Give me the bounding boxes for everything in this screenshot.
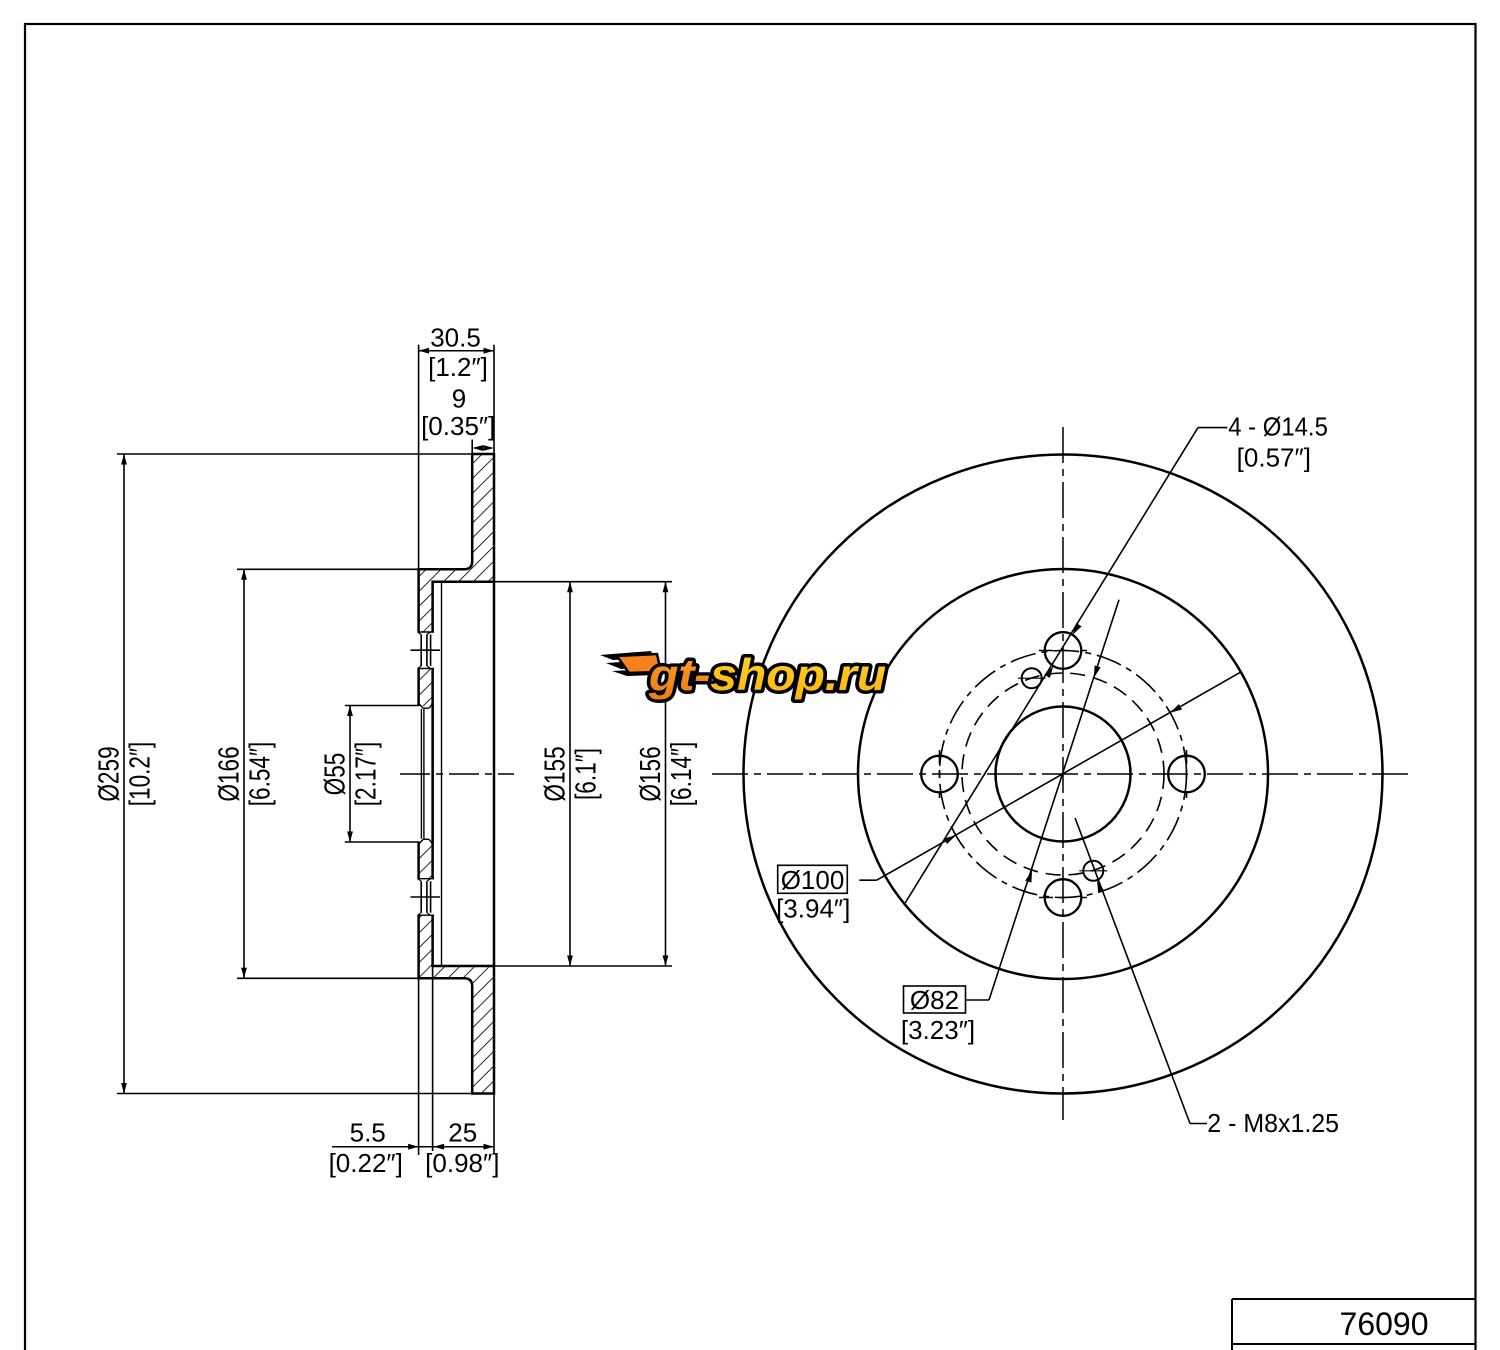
svg-text:[1.2″]: [1.2″] <box>428 352 488 382</box>
bolt circle D100 (dash-dot) <box>940 651 1187 898</box>
svg-text:gt-: gt- <box>648 650 710 700</box>
svg-text:[0.22″]: [0.22″] <box>329 1148 403 1178</box>
leader D82 [3.23"] (boxed) <box>904 986 966 1013</box>
svg-text:[0.57″]: [0.57″] <box>1237 443 1311 473</box>
wheel bolt hole 14.5mm in section <box>417 632 434 669</box>
centre hole D55 <box>996 707 1131 842</box>
svg-text:Ø155: Ø155 <box>538 746 571 801</box>
svg-text:[6.1″]: [6.1″] <box>569 748 602 800</box>
leader 4 - D14.5 <box>1198 427 1227 429</box>
2 threaded holes M8x1.25 <box>1022 668 1042 688</box>
front view centrelines <box>1062 427 1064 1120</box>
brake disc cross-section (hatched cut) <box>419 454 494 1094</box>
svg-text:Ø55: Ø55 <box>318 753 351 796</box>
svg-text:30.5: 30.5 <box>430 323 481 353</box>
part number 76090 <box>1340 1306 1429 1342</box>
svg-text:Ø259: Ø259 <box>92 746 125 801</box>
bolt hole centreline <box>411 896 441 898</box>
gt-shop.ru watermark logo <box>600 650 886 700</box>
dim D156 [6.14"] <box>665 582 667 966</box>
svg-text:[10.2″]: [10.2″] <box>123 742 156 807</box>
svg-text:Ø156: Ø156 <box>633 746 666 801</box>
outer circle D259 <box>744 455 1383 1094</box>
dim D155 [6.1"] <box>494 581 672 583</box>
svg-text:[3.94″]: [3.94″] <box>776 894 850 924</box>
svg-text:[6.54″]: [6.54″] <box>243 742 276 807</box>
hat circle D166 <box>858 569 1268 979</box>
svg-text:Ø100: Ø100 <box>781 865 845 895</box>
title block <box>1232 1298 1475 1300</box>
dim D55 [2.17"] <box>345 705 419 707</box>
leader 2 - M8x1.25 <box>1190 1123 1207 1125</box>
disc inboard face visible edge <box>493 582 496 966</box>
svg-text:76090: 76090 <box>1340 1306 1429 1342</box>
centre bore 55mm in section <box>417 706 432 842</box>
dim 30.5 [1.2"] / 9 [0.35"] <box>418 345 420 570</box>
4 wheel bolt holes D14.5 <box>1045 632 1082 669</box>
svg-text:Ø82: Ø82 <box>910 985 959 1015</box>
dim D166 [6.54"] <box>237 568 419 570</box>
svg-text:2 - M8x1.25: 2 - M8x1.25 <box>1207 1110 1339 1139</box>
wheel bolt hole 14.5mm in section <box>417 879 434 916</box>
dim 5.5 [0.22"] and 25 [0.98"] <box>418 978 420 1155</box>
svg-text:[3.23″]: [3.23″] <box>901 1015 975 1045</box>
svg-text:9: 9 <box>452 383 466 413</box>
svg-text:[6.14″]: [6.14″] <box>664 742 697 807</box>
svg-text:[0.98″]: [0.98″] <box>425 1148 499 1178</box>
bolt hole centreline <box>411 649 441 651</box>
section centreline <box>400 773 514 775</box>
dim D259 [10.2"] <box>117 453 472 455</box>
hub recess visible edge <box>441 583 443 965</box>
service circle D82 (dashed) <box>962 673 1164 875</box>
leader D100 [3.94"] (boxed) <box>778 865 848 893</box>
svg-text:25: 25 <box>448 1118 477 1148</box>
svg-text:Ø166: Ø166 <box>212 746 245 801</box>
svg-text:[2.17″]: [2.17″] <box>349 742 382 807</box>
svg-text:[0.35″]: [0.35″] <box>421 411 495 441</box>
svg-text:4 - Ø14.5: 4 - Ø14.5 <box>1228 412 1328 441</box>
svg-text:5.5: 5.5 <box>350 1118 386 1148</box>
